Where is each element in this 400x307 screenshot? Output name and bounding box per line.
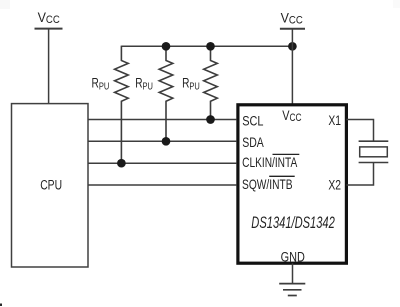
wire X1 to crystal [346,120,373,142]
svg-text:CLKIN/INTA: CLKIN/INTA [242,154,298,170]
wire VCC-right to U1 [291,29,293,105]
IC U1 DS1341/DS1342 box [238,105,347,263]
ground [279,284,305,296]
corner artifact [0,304,2,307]
junction RPU3 top [206,42,215,51]
wire SCL net [88,119,236,121]
crystal Y1 [359,141,389,162]
svg-text:CPU: CPU [40,177,62,193]
power VCC left bar [35,28,63,30]
resistor RPU1 [115,46,129,164]
pin label CLKIN/INTA [242,154,299,170]
resistor RPU3 [204,46,218,119]
wire pull-up bus [121,45,292,47]
wire VCC-left to CPU [48,29,50,104]
svg-text:SDA: SDA [242,134,264,150]
svg-text:SCL: SCL [242,113,263,129]
wire SQW net [88,184,236,186]
power VCC right bar [280,28,305,30]
wire U1 GND stem [292,263,294,283]
pin label SQW/INTB [242,176,295,192]
wire SDA net [88,140,236,142]
svg-text:GND: GND [281,249,305,265]
junction RPU2 SDA [162,137,171,146]
junction RPU3 SCL [206,115,215,124]
resistor RPU2 [159,46,173,141]
junction RPU1 CLKIN [117,159,126,168]
CPU box [12,104,89,267]
svg-text:X1: X1 [328,112,341,128]
junction VCC bus [288,42,297,51]
svg-text:DS1341/DS1342: DS1341/DS1342 [251,214,335,233]
wire CLKIN net [88,162,236,164]
svg-text:SQW/INTB: SQW/INTB [242,176,293,192]
wire crystal to X2 [346,163,373,186]
junction RPU2 top [162,42,171,51]
svg-text:X2: X2 [328,177,341,193]
